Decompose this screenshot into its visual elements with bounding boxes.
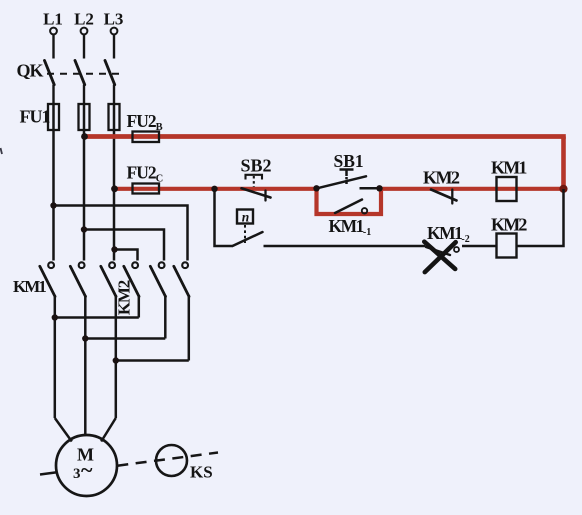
SB1 right terminal stub (360, 187, 378, 190)
red loop around SB1 (KM1-1 path) (317, 189, 382, 214)
node phase2 branch (81, 226, 87, 232)
svg-text:KM1: KM1 (13, 277, 46, 296)
wire row2 to KM1-2 (264, 245, 426, 248)
svg-text:L3: L3 (104, 10, 124, 29)
wire phase3 to KM2 col4 (115, 250, 138, 261)
svg-text:SB2: SB2 (241, 156, 272, 176)
fuse FU1 (three cartridges) (48, 104, 120, 130)
node phase3 branch (111, 246, 117, 252)
wire phase2 to KM2 col5 (84, 230, 164, 261)
node L1 terminal (50, 28, 117, 35)
contact KM1-2 terminal circle (454, 247, 459, 252)
coil KM1 (497, 177, 517, 201)
node SB1 right (376, 185, 382, 191)
node phase1 branch (50, 202, 56, 208)
contact KM1-2 blade (426, 247, 450, 255)
junction dot phase B / r0 (81, 133, 88, 140)
coil KM2 (497, 234, 517, 258)
svg-text:L2: L2 (74, 10, 94, 29)
svg-text:~: ~ (81, 457, 93, 482)
svg-text:KS: KS (190, 463, 213, 482)
svg-text:KM2: KM2 (115, 280, 134, 315)
QK linkage dashed (47, 73, 119, 75)
speed-relay KS contact box (n) (237, 210, 253, 224)
contact KM1-1 terminal circle (362, 208, 367, 213)
red highlighted line r0 (phase B feed) (84, 134, 566, 139)
wire through FU1 fuses (54, 104, 115, 261)
node out2 (82, 335, 88, 341)
wire phase1 to KM2 col6 (54, 206, 188, 261)
red corner junction (559, 185, 567, 193)
svg-text:SB1: SB1 (334, 151, 364, 171)
svg-text:KM2: KM2 (491, 215, 527, 235)
svg-text:3: 3 (73, 466, 81, 482)
svg-text:KM1: KM1 (491, 158, 527, 178)
shaft axis dashed (40, 472, 57, 474)
junction dot phase C / r1 (111, 185, 118, 192)
fuse FU2C (133, 184, 160, 194)
speed switch KS circle (156, 445, 187, 476)
svg-text:KM2: KM2 (423, 168, 460, 188)
wire lower drops (55, 295, 189, 435)
red highlighted line r1 (phase C feed) (115, 187, 319, 191)
node out1 (52, 314, 58, 320)
contact KM1-1 (NO, self-hold) blade (335, 200, 362, 214)
svg-text:L1: L1 (43, 10, 63, 29)
pushbutton SB1 (NO) actuator (340, 170, 354, 185)
wire L1 drop (54, 35, 115, 59)
wire output cross-links (55, 318, 189, 361)
wire KM2 coil to right edge (517, 189, 564, 246)
wire branch down to row2 (215, 190, 234, 246)
fault cross X over KM1-2 (424, 242, 455, 272)
contact KM1-2 (NO, crossed out) right stub (462, 245, 497, 248)
svg-text:QK: QK (17, 61, 44, 81)
pushbutton SB2 blade (242, 188, 271, 200)
fuse FU2B (133, 132, 160, 143)
contactor KM1 main contacts (48, 262, 188, 268)
stray scan mark left edge (1, 148, 3, 154)
switch QK blades (45, 61, 115, 85)
wire main contact feeds (cross branches) (54, 206, 188, 261)
svg-text:FU1: FU1 (20, 107, 51, 127)
svg-text:n: n (242, 210, 250, 225)
motor M circle (56, 435, 117, 496)
node out3 (113, 357, 119, 363)
wire into motor (55, 418, 116, 442)
pushbutton SB2 (NC) actuator (246, 175, 263, 187)
node SB1 left (313, 185, 319, 191)
speed-relay KS contact blade (NO) (233, 232, 263, 246)
node branch to KS contact (211, 186, 217, 192)
red vertical right edge (561, 137, 566, 189)
wire below QK (54, 85, 115, 104)
pushbutton SB1 blade (317, 176, 366, 188)
contact KM2 (NC interlock) on row1 (431, 190, 457, 204)
